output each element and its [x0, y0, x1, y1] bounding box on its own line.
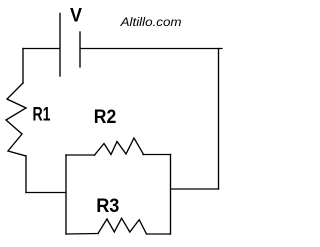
wire feed to parallel group [26, 192, 66, 194]
wire junction to right vertical [171, 188, 219, 190]
wire R2 branch right lead [143, 154, 171, 156]
wire top-right (battery - to node B) [81, 48, 223, 50]
svg-text:R2: R2 [94, 107, 117, 128]
wire parallel group right vertical [170, 155, 172, 235]
svg-text:Altillo.com: Altillo.com [119, 15, 181, 29]
svg-text:R3: R3 [96, 196, 119, 217]
wire top-left (node A to battery +) [23, 48, 60, 50]
wire R2 branch left lead [66, 154, 95, 156]
wire R3 branch left lead [66, 233, 98, 236]
wire right vertical [218, 49, 220, 190]
svg-text:R1: R1 [33, 105, 51, 126]
wire parallel group left vertical [65, 155, 67, 234]
wire left vertical [22, 49, 24, 84]
battery V left plate [59, 14, 61, 77]
svg-text:V: V [70, 6, 82, 27]
resistor R1 zigzag [6, 83, 26, 156]
wire R3 branch right lead [147, 233, 171, 235]
resistor R3 zigzag [98, 218, 147, 234]
resistor R2 zigzag [95, 138, 144, 155]
battery V right plate [79, 32, 81, 67]
wire R1 bottom vertical [25, 156, 27, 193]
